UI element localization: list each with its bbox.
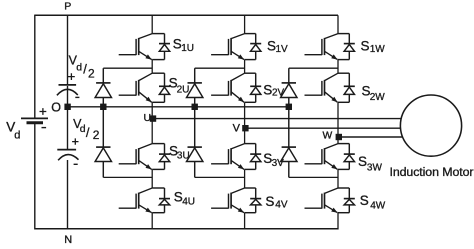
- clamp diode D2V (lower): [187, 107, 203, 178]
- svg-text:Induction Motor: Induction Motor: [390, 165, 474, 179]
- antiparallel diode of S4U: [159, 188, 170, 213]
- wire: V-leg spine, S3V emitter to S4V collector: [244, 169, 246, 188]
- antiparallel diode of S1W: [344, 34, 355, 60]
- junction square: upper clamp of W leg on O rail: [286, 104, 292, 110]
- wire: W-leg spine, node W to S3W collector: [337, 137, 339, 144]
- capacitor C2 (lower DC-link cap Vd/2): [57, 150, 78, 161]
- C1 minus mark: [75, 96, 79, 98]
- wire: capacitor rail between node O and C2: [67, 107, 69, 150]
- svg-text:2W: 2W: [370, 92, 386, 103]
- node W junction square: [336, 134, 342, 140]
- svg-text:S: S: [361, 39, 370, 54]
- svg-text:V: V: [233, 123, 241, 135]
- wire: phase U output line to motor: [152, 118, 401, 120]
- wire: V-leg spine, P rail to S1V collector: [244, 15, 246, 33]
- svg-text:4V: 4V: [275, 200, 288, 211]
- svg-text:3W: 3W: [367, 163, 383, 174]
- wire: left DC source rail (lower segment): [34, 124, 36, 230]
- battery Vd: [21, 118, 48, 122]
- svg-text:1W: 1W: [370, 44, 386, 55]
- svg-text:1U: 1U: [181, 43, 194, 54]
- junction square: upper clamp of U leg on O rail: [100, 104, 106, 110]
- wire: positive DC rail (node P): [35, 14, 338, 16]
- C2 minus mark: [74, 163, 78, 165]
- battery plus mark: [40, 108, 47, 115]
- wire: phase V output line to motor: [245, 127, 401, 129]
- IGBT S3W: [305, 144, 350, 170]
- svg-text:S: S: [358, 154, 367, 169]
- IGBT S4V: [211, 188, 256, 213]
- wire: V-leg spine, node V to S3V collector: [244, 128, 246, 143]
- battery minus mark: [42, 127, 47, 129]
- wire: negative DC rail (node N): [35, 228, 338, 230]
- IGBT S2U: [119, 73, 165, 102]
- svg-text:2: 2: [88, 67, 95, 81]
- svg-text:S: S: [360, 193, 369, 208]
- antiparallel diode of S2V: [250, 73, 261, 102]
- node U junction square: [150, 115, 156, 121]
- wire: phase W output line to motor: [338, 136, 403, 138]
- wire: U-leg spine, S4U emitter to N rail: [151, 213, 153, 230]
- svg-text:O: O: [51, 100, 61, 114]
- IGBT S3U: [119, 144, 165, 170]
- wire: W-leg spine, S2W emitter to node W: [337, 102, 339, 137]
- clamp diode D1U (upper): [95, 68, 111, 107]
- label Vd/2 (lower): [73, 117, 100, 142]
- IGBT S2V: [211, 73, 256, 102]
- wire: W-leg spine, S4W emitter to N rail: [337, 213, 339, 230]
- svg-text:d: d: [14, 130, 20, 142]
- wire: upper clamp link (U leg, S1/S2 midpoint): [103, 67, 152, 69]
- wire: W-leg spine, S1W emitter to S2W collector: [337, 60, 339, 74]
- wire: lower clamp link (V leg, S3/S4 midpoint): [195, 176, 245, 178]
- antiparallel diode of S3V: [250, 144, 261, 170]
- svg-text:d: d: [80, 123, 86, 135]
- C2 plus mark: [72, 138, 78, 144]
- IGBT S1V: [211, 34, 256, 60]
- antiparallel diode of S1V: [250, 34, 261, 60]
- wire: capacitor rail between C1 and node O: [67, 86, 69, 107]
- svg-text:/: /: [83, 62, 87, 77]
- wire: U-leg spine, S2U emitter to node U: [151, 102, 153, 118]
- wire: V-leg spine, S4V emitter to N rail: [244, 213, 246, 230]
- wire: U-leg spine, S1U emitter to S2U collector: [151, 60, 153, 74]
- wire: left DC source rail (upper segment): [34, 15, 36, 118]
- antiparallel diode of S4W: [344, 188, 355, 213]
- antiparallel diode of S2U: [159, 73, 170, 102]
- wire: neutral-point rail from O to W clamp leg: [68, 106, 290, 108]
- wire: lower clamp link (U leg, S3/S4 midpoint): [103, 176, 152, 178]
- svg-text:1V: 1V: [276, 44, 289, 55]
- IGBT S3V: [211, 144, 256, 170]
- wire: U-leg spine, S3U emitter to S4U collector: [151, 169, 153, 188]
- IGBT S1U: [119, 34, 165, 60]
- svg-text:U: U: [144, 112, 152, 124]
- svg-text:N: N: [64, 234, 72, 244]
- clamp diode D2U (lower): [95, 107, 111, 178]
- svg-text:d: d: [76, 61, 82, 73]
- svg-text:P: P: [64, 1, 71, 13]
- wire: upper clamp link (V leg, S1/S2 midpoint): [195, 67, 245, 69]
- wire: V-leg spine, S2V emitter to node V: [244, 102, 246, 128]
- induction motor M1 (circle): [400, 95, 461, 156]
- capacitor C1 (upper DC-link cap Vd/2): [57, 85, 78, 95]
- wire: capacitor rail from C2 down to N rail: [67, 160, 69, 230]
- wire: W-leg spine, P rail to S1W collector: [337, 15, 339, 33]
- antiparallel diode of S3U: [159, 144, 170, 170]
- antiparallel diode of S1U: [159, 34, 170, 60]
- wire: U-leg spine, node U to S3U collector: [151, 119, 153, 144]
- svg-text:S: S: [263, 83, 272, 98]
- clamp diode D1W (upper): [281, 68, 297, 107]
- svg-text:/: /: [86, 125, 90, 140]
- node V junction square: [242, 125, 248, 131]
- IGBT S4W: [305, 188, 350, 213]
- svg-text:S: S: [265, 194, 274, 209]
- svg-text:W: W: [323, 131, 333, 142]
- svg-text:2: 2: [93, 128, 100, 142]
- antiparallel diode of S4V: [250, 188, 261, 213]
- IGBT S2W: [305, 73, 350, 102]
- wire: lower clamp link (W leg, S3/S4 midpoint): [289, 176, 338, 178]
- svg-text:4W: 4W: [370, 201, 386, 212]
- junction square: upper clamp of V leg on O rail: [192, 104, 198, 110]
- C1 plus mark: [68, 73, 75, 80]
- IGBT S4U: [119, 188, 165, 213]
- antiparallel diode of S3W: [344, 144, 355, 170]
- svg-text:2U: 2U: [177, 84, 190, 95]
- wire: DC-link capacitor rail from P: [67, 15, 69, 85]
- junction square at node O: [64, 104, 70, 110]
- IGBT S1W: [305, 34, 350, 60]
- svg-text:4U: 4U: [182, 196, 195, 207]
- clamp diode D2W (lower): [281, 107, 297, 178]
- clamp diode D1V (upper): [187, 68, 203, 107]
- label Vd/2 (upper): [69, 54, 95, 81]
- wire: U-leg spine, P rail to S1U collector: [151, 15, 153, 33]
- wire: upper clamp link (W leg, S1/S2 midpoint): [289, 67, 338, 69]
- wire: W-leg spine, S3W emitter to S4W collector: [337, 169, 339, 188]
- wire: V-leg spine, S1V emitter to S2V collector: [244, 60, 246, 74]
- antiparallel diode of S2W: [344, 73, 355, 102]
